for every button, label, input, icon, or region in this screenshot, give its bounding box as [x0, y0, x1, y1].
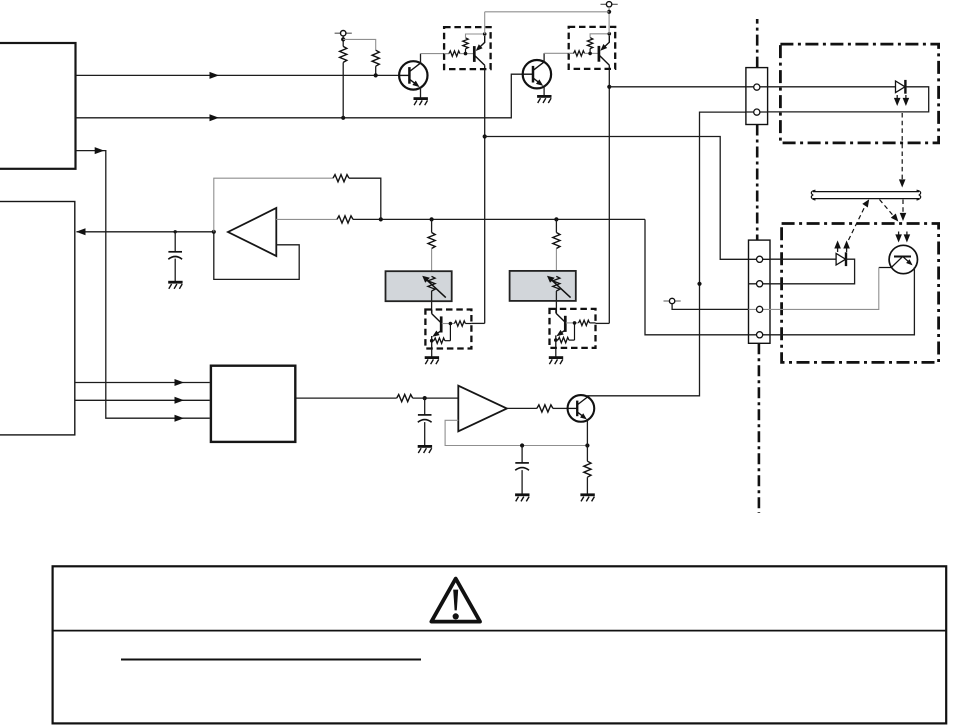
wire VR1 to pack PB1: [431, 291, 433, 314]
ground for C3: [515, 495, 529, 502]
Q1 emitter wire: [420, 88, 422, 99]
LED D2: [836, 252, 846, 266]
connector CN2: [749, 240, 771, 343]
wire VR2 to pack PB2: [555, 291, 557, 313]
capacitor C2: [418, 398, 432, 446]
digital transistor pack PB1 (NPN with bias resistors): [425, 310, 471, 349]
resistor R7: [397, 395, 413, 402]
ground for Q1: [414, 99, 428, 106]
digital transistor pack PA2 (PNP with bias resistors): [569, 27, 616, 69]
document glass / mirror: [811, 190, 920, 200]
wire CN2 pin1 to LED D2: [770, 258, 836, 260]
LED D1: [896, 80, 906, 94]
transistor Q3: [568, 395, 595, 422]
terminal T1 (pull-up supply): [335, 31, 352, 36]
light beam mirror to sensor (dashed): [880, 200, 899, 222]
potentiometer VR2 (gray block): [510, 271, 576, 301]
wire CN1 pin1 to LED D1: [768, 86, 896, 88]
D1 emission arrows: [894, 95, 909, 106]
op-amp U5: [458, 386, 507, 432]
flex cable dash-dot line (above CN1): [756, 19, 759, 68]
terminal T2 (supply, top): [601, 2, 618, 7]
sensor unit enclosure (dash-dot box, bottom): [782, 224, 939, 363]
flex cable dash-dot line (below CN2): [758, 343, 761, 513]
light beam through mirror down (dashed): [900, 200, 907, 222]
IC block U1 (top-left): [0, 43, 76, 169]
resistor R8: [537, 405, 553, 412]
ground for R9: [580, 495, 594, 502]
wire T3 to connector CN2 pin3: [672, 304, 748, 310]
wire D1 return to CN1 pin2: [768, 87, 929, 112]
resistor R6: [553, 233, 560, 277]
wire PT1 collector to CN2 pin3: [770, 268, 879, 310]
wire PT1 emitter to CN2 pin4: [770, 267, 914, 335]
transistor Q2: [523, 60, 551, 88]
flex cable dash-dot line (CN1 to CN2): [756, 125, 759, 241]
wire net W3 from U1 down to driver block: [76, 147, 210, 422]
ground for C2: [418, 446, 432, 453]
IC block U2 (bottom-left): [0, 202, 75, 435]
wire U3 feedback loop top: [214, 178, 381, 232]
wire rail B to connector CN1 pin1: [609, 86, 746, 88]
motor driver block U4 (thick box): [211, 366, 295, 442]
wire U5 feedback loop: [445, 420, 589, 447]
resistor R3 (U3 input): [337, 216, 353, 223]
Q1 collector wire to pack PA1: [421, 54, 450, 63]
resistor R2: [372, 50, 379, 77]
resistor R9 (Q3 emitter): [584, 446, 591, 495]
D2 emission arrows: [834, 240, 850, 252]
wire U3 lower loop to non-inverting input: [214, 232, 299, 280]
wire branch to VR1: [431, 219, 433, 232]
potentiometer VR1 (gray block): [386, 271, 452, 301]
underline rule in warning text: [121, 659, 421, 661]
wire D2 return to CN2 pin2: [770, 259, 855, 284]
wire U3 inverting input line: [276, 217, 645, 221]
wire T2 down to rail junction: [607, 7, 611, 34]
op-amp U3: [228, 208, 276, 256]
transistor Q1: [399, 61, 427, 89]
capacitor C3: [515, 446, 529, 495]
light beam D1 to mirror (dashed): [899, 113, 906, 188]
PT1 incident light arrows: [895, 232, 910, 243]
warning triangle icon: [431, 579, 480, 622]
wire U4 output to op-amp U5: [296, 396, 458, 400]
digital transistor pack PB2 (NPN with bias resistors): [550, 309, 596, 348]
warning box frame: [53, 566, 947, 723]
Q3 emitter wire: [586, 420, 588, 446]
wire supply rail top (T2 to PA1 emitter): [485, 12, 609, 34]
wire net W2 from U1 to Q2 base: [76, 74, 524, 121]
Q3 collector wire: [587, 396, 589, 397]
digital transistor pack PA1 (PNP with bias resistors): [444, 27, 491, 69]
phototransistor PT1: [879, 245, 918, 273]
wire U5 output to Q3: [507, 407, 567, 409]
resistor R4 (U3 feedback): [333, 175, 349, 182]
light beam D2 up to mirror (dashed): [849, 199, 870, 240]
connector CN1: [746, 68, 768, 125]
wire op-amp U3 output to U2: [76, 228, 216, 235]
wire net W1 from U1 to Q1 base: [76, 72, 400, 79]
wire op-amp line to CN2 pin4: [645, 219, 749, 334]
wire CN1 pin2 down to Q3 collector: [588, 112, 746, 396]
wire T1 to resistor tops: [341, 36, 376, 50]
wire net from rail A to connector CN2 pin1: [485, 137, 749, 260]
resistor R1: [340, 46, 347, 117]
wire from U2 to driver block (lower): [75, 397, 210, 404]
wire rail B (PA2 collector down to pack PB2): [596, 69, 612, 324]
scanner unit enclosure (dash-dot box, top): [780, 44, 938, 143]
wire rail A (PA1 collector down to pack PB1): [471, 69, 486, 323]
ground for Q2: [537, 96, 551, 103]
ground for PB1: [425, 349, 439, 365]
terminal T3: [664, 298, 681, 303]
wire from U2 to driver block (upper): [75, 379, 210, 386]
wire branch to VR2: [555, 219, 557, 232]
Q2 emitter wire: [543, 87, 545, 97]
ground for PB2: [549, 348, 563, 364]
resistor R5: [428, 233, 435, 277]
Q2 collector wire to pack PA2: [544, 53, 574, 62]
ground for C1: [168, 282, 182, 289]
capacitor C1: [168, 232, 182, 282]
